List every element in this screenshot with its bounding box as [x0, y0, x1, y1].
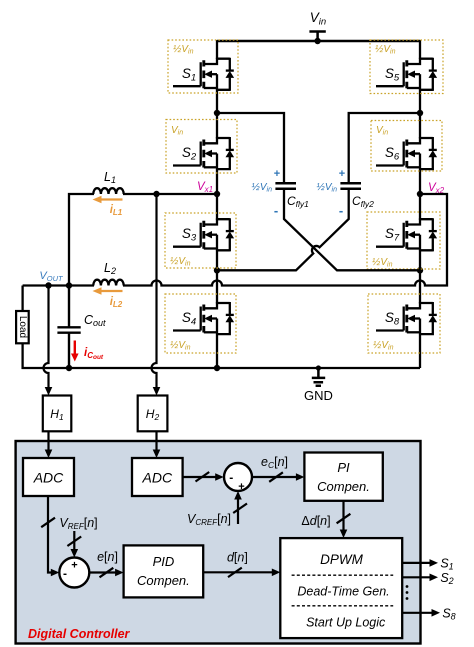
wire left branch drain S1 [216, 40, 218, 59]
slash ADC1 bus [41, 518, 55, 528]
wire Cfly1 bottom diagonal to S7/S8 node [284, 189, 420, 270]
stress box S5 [370, 40, 443, 94]
wire Vx1-S3 [216, 194, 218, 220]
block PI [304, 453, 382, 501]
inductor L2 [93, 280, 123, 286]
svg-text:ADC: ADC [33, 470, 64, 486]
load resistor [21, 286, 23, 312]
block DPWM [280, 538, 402, 638]
arrow iCout [74, 341, 76, 356]
wire Vcref to sum1 [237, 498, 239, 524]
svg-text:PID: PID [153, 554, 175, 569]
block ADC1 [23, 458, 74, 496]
label dots [406, 585, 409, 588]
stress box S7 [367, 212, 440, 269]
junction Vout sense tap [45, 282, 51, 288]
slash d bus [228, 568, 242, 578]
wire S2-Vx1 [216, 169, 218, 194]
svg-text:-: - [63, 567, 67, 581]
transistor S6 [376, 137, 437, 170]
wire Cfly2 bottom diagonal to S3/S4 node with hop [217, 189, 349, 270]
svg-text:+: + [339, 168, 345, 180]
wire Vout rail to Vx2 with hops [123, 194, 447, 286]
stress box S8 [368, 294, 440, 353]
svg-text:-: - [274, 203, 278, 218]
inductor L1 [93, 188, 123, 194]
wire S7-S8 node [419, 250, 421, 304]
junction S7/S8 node [417, 267, 423, 273]
wire Vout rail left [23, 284, 94, 286]
svg-text:PI: PI [337, 460, 350, 475]
svg-text:Load: Load [17, 316, 28, 338]
capacitor Cfly1 [275, 183, 296, 189]
wire H1 to ADC1 [47, 431, 49, 451]
wire ADC2 to sum1 [183, 476, 217, 478]
stress box S3 [165, 213, 236, 268]
wire DPWM out S2 [402, 576, 431, 578]
wire PID to DPWM [203, 571, 273, 573]
wire S4-gnd rail [216, 334, 218, 368]
summer sum2 [59, 558, 89, 588]
wire sum1 to PI [252, 476, 297, 478]
svg-text:eC[n]: eC[n] [261, 455, 288, 470]
stress box S2 [166, 120, 237, 174]
transistor S1 [173, 58, 234, 91]
svg-text:Δd[n]: Δd[n] [301, 514, 330, 528]
transistor S4 [173, 302, 234, 335]
wire Vx2-S7 [419, 194, 421, 220]
transistor S3 [173, 218, 234, 251]
svg-text:Digital Controller: Digital Controller [28, 627, 131, 641]
arrow iL1 [99, 198, 123, 200]
capacitor Cfly2 [340, 183, 361, 189]
svg-text:DPWM: DPWM [320, 552, 363, 567]
svg-text:+: + [274, 168, 280, 180]
slash delta-d bus [337, 514, 351, 524]
stress box S6 [371, 121, 442, 172]
svg-text:ADC: ADC [142, 470, 173, 486]
digital controller box [16, 441, 421, 644]
junction Cout bottom [66, 365, 72, 371]
wire Vref to sum2 [73, 531, 75, 551]
transistor S2 [173, 137, 234, 170]
junction Vx1 [214, 191, 220, 197]
summer sum1 [224, 463, 252, 491]
svg-text:Start Up Logic: Start Up Logic [306, 616, 386, 630]
svg-text:d[n]: d[n] [227, 551, 248, 565]
wire node1 to Cfly1 [217, 113, 284, 184]
slash Vref bus [67, 537, 81, 547]
capacitor Cout [57, 286, 80, 369]
wire L1 right to Vx1 [123, 193, 217, 195]
junction S4 source rail [214, 365, 220, 371]
svg-text:Compen.: Compen. [317, 479, 370, 494]
transistor S5 [376, 58, 437, 91]
transistor S8 [376, 302, 437, 335]
junction S5/S6 node [417, 110, 423, 116]
block PID [124, 545, 204, 597]
wire sum2 to PID [89, 571, 116, 573]
wire DPWM out S1 [402, 562, 431, 564]
stress box S4 [165, 294, 236, 353]
junction Vin [314, 38, 320, 44]
junction Vx2 [417, 191, 423, 197]
Vin terminal [309, 32, 325, 42]
separator 2 [292, 605, 394, 607]
wire H2 sense with hop [152, 194, 157, 388]
svg-text:GND: GND [304, 388, 333, 403]
separator 1 [292, 574, 394, 576]
wire S6-Vx2 [419, 169, 421, 194]
wire right branch drain S5 [419, 40, 421, 59]
wire load bottom [23, 343, 420, 368]
wire L1 left leg [69, 194, 94, 286]
junction S1/S2 node [214, 110, 220, 116]
slash e bus [100, 568, 114, 578]
junction S3/S4 node [214, 267, 220, 273]
wire DPWM out S8 [402, 612, 433, 614]
svg-text:Compen.: Compen. [137, 573, 190, 588]
slash ADC2 bus [196, 472, 210, 482]
ground [312, 368, 325, 386]
slash Vcref bus [233, 504, 247, 514]
wire node5 to Cfly2 [349, 113, 420, 184]
wire S5-S6 [419, 90, 421, 139]
svg-text:-: - [339, 203, 343, 218]
svg-text:+: + [71, 560, 77, 572]
wire H2 to ADC2 [155, 431, 157, 451]
junction L1/Cout node [66, 282, 72, 288]
slash ec bus [269, 472, 283, 482]
wire top rail [217, 40, 420, 43]
block ADC2 [132, 458, 183, 496]
wire S8-gnd rail [419, 334, 421, 368]
wire S3-S4 node [216, 250, 218, 304]
transistor S7 [376, 218, 437, 251]
block H1 [43, 396, 72, 432]
arrow iL2 [99, 290, 123, 292]
wire H1 sense with hop [44, 286, 49, 389]
svg-text:+: + [238, 481, 244, 493]
wire ADC1 down to sum2 [48, 496, 52, 573]
wire S1-S2 [216, 90, 218, 139]
svg-text:Dead-Time Gen.: Dead-Time Gen. [297, 585, 389, 599]
block H2 [138, 396, 168, 432]
svg-text:-: - [229, 471, 233, 485]
junction H2 tap [153, 191, 159, 197]
wire PI to DPWM [342, 501, 344, 531]
svg-text:e[n]: e[n] [97, 550, 118, 564]
stress box S1 [168, 40, 238, 93]
